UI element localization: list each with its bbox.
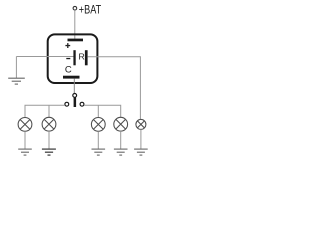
wire lamp L2 to ground (48, 131, 50, 149)
ground (left) bars (8, 78, 25, 84)
wire branch to lamp L3 (97, 105, 99, 117)
ground under L3 (92, 149, 106, 155)
wire right bus to right lamps (84, 105, 121, 117)
contact plate (top bar) (68, 39, 84, 42)
label + (polarity) (65, 43, 70, 48)
ground under L2 (42, 149, 56, 155)
svg-text:+BAT: +BAT (79, 3, 102, 17)
relay unit U1 (flasher can outline) (48, 34, 98, 83)
switch lever S1 (74, 97, 77, 107)
ground under L4 (114, 149, 128, 155)
lamp L3 (91, 118, 105, 132)
wire left bus to left lamps (25, 105, 65, 117)
ground under pilot lamp (134, 149, 148, 155)
wire pilot lamp to ground (140, 129, 142, 149)
wire lamp L1 to ground (24, 131, 26, 149)
wire capacitor plate to output terminal (73, 79, 75, 94)
node switch common terminal (73, 94, 77, 98)
node +BAT terminal (73, 6, 77, 10)
lamp L2 (42, 117, 56, 131)
pilot lamp L5 (136, 119, 146, 129)
svg-text:R: R (79, 52, 85, 62)
svg-text:C: C (65, 64, 72, 75)
lamp L4 (114, 117, 128, 131)
contact bar left (73, 50, 75, 65)
ground under L1 (18, 149, 32, 155)
lamp L1 (18, 118, 32, 132)
wire lamp L4 to ground (120, 131, 122, 149)
wire from left ground into relay (16, 56, 73, 58)
node switch right contact (80, 102, 84, 106)
wire lamp L3 to ground (97, 131, 99, 149)
node switch left contact (65, 102, 69, 106)
capacitor C plate (63, 76, 80, 79)
ground (left) stem (15, 57, 17, 79)
wire branch to lamp L2 (48, 105, 50, 117)
contact bar right (85, 50, 88, 65)
label - (polarity) (66, 58, 70, 59)
wire from right contact bar out to pilot lamp (88, 57, 141, 120)
wire from +BAT terminal to relay top bar (74, 10, 76, 39)
